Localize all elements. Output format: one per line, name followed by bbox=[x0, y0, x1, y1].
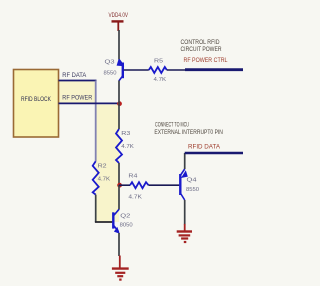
wire R3 to R4 junction bbox=[118, 163, 120, 185]
wire R5 to port bbox=[167, 69, 186, 71]
wire R4 to Q4 base bbox=[149, 184, 180, 186]
enclosed region fill B (between vertical wires loop) bbox=[96, 105, 119, 223]
resistor R5 4.7K bbox=[149, 58, 167, 83]
transistor Q3 8550 (PNP) bbox=[104, 59, 125, 81]
wire junction to R4 bbox=[119, 184, 130, 186]
wire Q2 emitter down bbox=[118, 233, 120, 256]
svg-text:4.7K: 4.7K bbox=[154, 77, 167, 83]
resistor R2 4.7K bbox=[93, 161, 111, 194]
svg-text:8050: 8050 bbox=[120, 223, 133, 229]
transistor Q4 8550 (PNP) bbox=[180, 169, 199, 200]
RFID BLOCK sheet symbol bbox=[14, 70, 59, 138]
svg-text:R3: R3 bbox=[121, 131, 130, 137]
wire RF DATA horizontal bbox=[59, 80, 97, 82]
svg-text:VDD4.0V: VDD4.0V bbox=[109, 13, 129, 19]
svg-text:R4: R4 bbox=[128, 173, 137, 179]
wire VDD to Q3 emitter bbox=[118, 30, 120, 60]
power symbol VDD4.0V bbox=[109, 13, 129, 31]
svg-text:CONTROL RFID: CONTROL RFID bbox=[181, 40, 221, 46]
wire Q3 base to R5 bbox=[124, 69, 149, 71]
wire RF POWER horizontal bbox=[59, 102, 120, 104]
ground below Q2 bbox=[112, 256, 129, 280]
svg-text:R5: R5 bbox=[154, 58, 163, 64]
svg-text:RF DATA: RF DATA bbox=[62, 73, 86, 79]
wire junction to Q2 collector bbox=[118, 185, 120, 210]
svg-text:CIRCUIT POWER: CIRCUIT POWER bbox=[181, 47, 223, 53]
svg-text:RFID BLOCK: RFID BLOCK bbox=[21, 97, 51, 103]
wire RF DATA vertical (left line) bbox=[95, 81, 97, 162]
note CONTROL RFID CIRCUIT POWER bbox=[181, 40, 223, 53]
svg-text:Q3: Q3 bbox=[105, 60, 115, 66]
svg-text:Q4: Q4 bbox=[187, 178, 197, 184]
svg-text:8550: 8550 bbox=[186, 187, 199, 193]
ground below Q4 bbox=[177, 224, 192, 242]
wire Q4 collector down bbox=[184, 200, 186, 225]
junction dot at R4 branch bbox=[117, 183, 122, 188]
junction dot at RF POWER / main line bbox=[117, 101, 122, 106]
svg-text:CONNECT TO MCU: CONNECT TO MCU bbox=[155, 122, 189, 128]
wire corner to Q2 base bbox=[95, 221, 112, 223]
note CONNECT TO MCU EXTERNAL INTERRUPT0 PIN bbox=[154, 122, 223, 136]
svg-text:4.7K: 4.7K bbox=[98, 176, 111, 182]
svg-text:8550: 8550 bbox=[104, 71, 117, 77]
net wire RFID DATA bbox=[185, 152, 243, 155]
wire R2 bottom to corner bbox=[95, 195, 97, 222]
transistor Q2 8050 (NPN) bbox=[113, 209, 132, 234]
svg-text:4.7K: 4.7K bbox=[128, 195, 142, 201]
svg-text:RF POWER CTRL: RF POWER CTRL bbox=[184, 58, 229, 64]
svg-text:EXTERNAL INTERRUPT0 PIN: EXTERNAL INTERRUPT0 PIN bbox=[154, 130, 223, 136]
svg-text:Q2: Q2 bbox=[120, 213, 130, 219]
svg-text:RFID DATA: RFID DATA bbox=[188, 144, 220, 150]
svg-text:4.7K: 4.7K bbox=[121, 144, 134, 150]
resistor R3 4.7K bbox=[116, 129, 134, 163]
resistor R4 4.7K bbox=[128, 173, 148, 200]
wire Q3 collector down to junction and R3 bbox=[118, 81, 120, 130]
enclosed region fill A (box / RF DATA / RF POWER loop) bbox=[59, 81, 96, 104]
svg-text:R2: R2 bbox=[98, 163, 107, 169]
net wire RF POWER CTRL bbox=[185, 68, 243, 71]
wire RFID DATA vertical to Q4 emitter bbox=[184, 153, 186, 169]
svg-text:RF POWER: RF POWER bbox=[62, 96, 93, 102]
